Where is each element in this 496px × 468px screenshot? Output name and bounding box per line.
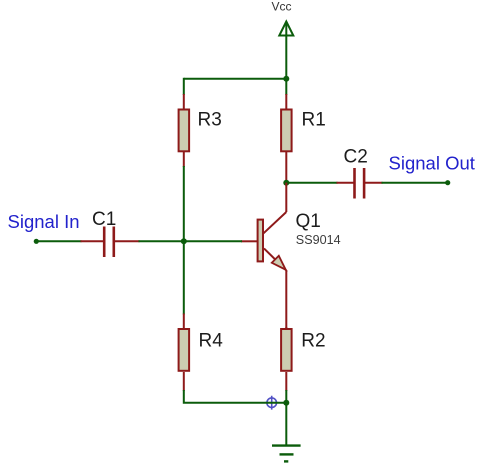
power symbol Vcc — [279, 22, 293, 36]
wire left vertical mid (R3 bottom to base node) — [183, 166, 185, 241]
svg-text:SS9014: SS9014 — [296, 233, 341, 247]
capacitor C2 — [337, 168, 383, 199]
junction base node — [181, 238, 187, 244]
wire C2 to output terminal — [382, 182, 448, 184]
wire collector node to C2 — [286, 182, 337, 184]
terminal Signal Out — [445, 180, 450, 185]
capacitor C1 — [81, 227, 140, 258]
svg-text:Q1: Q1 — [296, 211, 321, 232]
transistor Q1 — [241, 183, 286, 328]
svg-text:R4: R4 — [199, 331, 224, 352]
wire top horizontal — [184, 78, 286, 80]
wire Vcc rail vertical — [285, 22, 287, 95]
svg-text:Signal Out: Signal Out — [389, 153, 475, 174]
svg-text:R1: R1 — [302, 110, 326, 131]
junction top — [283, 76, 289, 82]
resistor R2 — [281, 327, 292, 391]
wire input terminal to C1 — [36, 240, 81, 242]
wire R4 bottom to ground node — [184, 390, 286, 403]
junction collector — [283, 180, 289, 186]
wire ground node to ground symbol — [285, 403, 287, 445]
resistor R4 — [179, 314, 190, 392]
wire C1 to base node and on to base — [139, 240, 243, 242]
resistor R1 — [281, 94, 292, 183]
resistor R3 — [179, 94, 190, 167]
svg-text:R2: R2 — [301, 331, 325, 352]
wire left vertical upper — [183, 78, 185, 95]
terminal Signal In — [34, 239, 39, 244]
svg-text:C2: C2 — [344, 147, 368, 168]
svg-text:Vcc: Vcc — [272, 0, 292, 14]
origin marker (blue crosshair) — [265, 396, 279, 410]
svg-text:C1: C1 — [92, 209, 116, 230]
junction ground node — [283, 400, 289, 406]
svg-text:Signal In: Signal In — [8, 211, 80, 232]
ground — [272, 446, 301, 462]
wire R2 bottom to ground node — [285, 390, 287, 403]
svg-text:R3: R3 — [198, 110, 222, 131]
wire left vertical lower (base node to R4) — [183, 240, 185, 314]
